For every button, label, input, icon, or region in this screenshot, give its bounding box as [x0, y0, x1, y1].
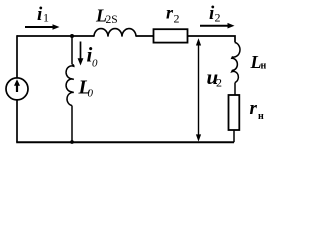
wire middle branch upper [71, 36, 73, 65]
wire bottom horizontal [16, 141, 234, 143]
inductor Lн (load) [232, 42, 240, 82]
wire middle branch lower [71, 106, 73, 143]
wire right branch (coil to load resistor) [234, 83, 236, 96]
svg-text:0: 0 [92, 58, 98, 70]
wire top right (resistor to corner) [188, 36, 236, 42]
node junction bottom [70, 140, 74, 144]
wire below load resistor [233, 130, 235, 142]
svg-text:2: 2 [215, 11, 221, 25]
svg-text:н: н [258, 111, 264, 122]
svg-text:2: 2 [174, 12, 180, 26]
wire left vertical lower [16, 100, 18, 142]
current arrow i0 [78, 42, 84, 66]
wire left vertical upper [16, 35, 18, 77]
resistor rн (load) [229, 95, 240, 130]
svg-text:2S: 2S [106, 14, 118, 26]
svg-text:1: 1 [43, 11, 49, 25]
svg-text:r: r [250, 98, 258, 119]
svg-text:н: н [261, 61, 267, 72]
current source [6, 78, 28, 100]
inductor L2S [94, 29, 136, 37]
resistor r2 [154, 29, 188, 42]
svg-text:0: 0 [88, 88, 94, 100]
current arrow i1 [25, 24, 60, 30]
wire top middle (coil to resistor) [136, 35, 154, 37]
inductor L0 (magnetizing branch) [66, 65, 74, 106]
current arrow i2 [200, 23, 235, 29]
node junction top (i0 branch) [70, 34, 74, 38]
wire top-left horizontal [17, 35, 94, 37]
svg-text:2: 2 [216, 76, 222, 90]
voltage arrow u2 (double headed) [196, 38, 201, 141]
